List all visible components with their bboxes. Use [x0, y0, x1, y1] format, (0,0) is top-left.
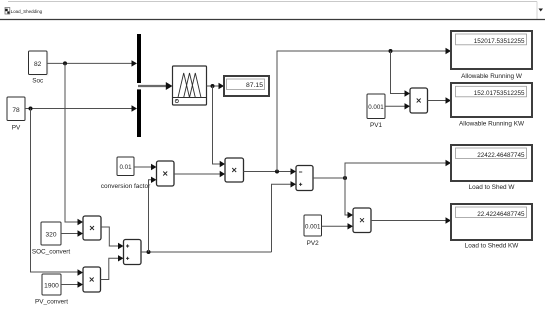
wire down to multiply G top input: [345, 178, 348, 215]
wire mux output (vector) to fuzzy: [138, 85, 166, 87]
svg-text:0.001: 0.001: [305, 223, 321, 230]
arrowhead into multiply A bottom: [151, 177, 157, 183]
svg-text:320: 320: [45, 232, 56, 239]
sum F block: [296, 166, 313, 191]
arrowhead into multiply D top: [78, 269, 84, 275]
svg-text:Load to Shed W: Load to Shed W: [469, 184, 516, 191]
wire sum E output to the right: [141, 251, 272, 253]
wire multiply 1 to display Allowable Running KW: [428, 100, 446, 102]
node junction load to shed: [343, 176, 347, 180]
arrowhead into multiply B bottom: [220, 171, 225, 177]
svg-text:152.01753512255: 152.01753512255: [474, 90, 525, 97]
svg-text:82: 82: [34, 61, 42, 68]
node junction on top wire: [389, 49, 393, 53]
svg-text:PV_convert: PV_convert: [35, 299, 68, 306]
wire total load up to multiply A bottom input: [149, 180, 152, 252]
wire PV branch down to multiply D top input: [31, 109, 78, 273]
wire fuzzy branch down to multiply B top input: [213, 86, 221, 164]
arrowhead into multiply 1 bottom: [405, 103, 411, 109]
svg-text:PV2: PV2: [307, 240, 320, 247]
svg-text:87.15: 87.15: [246, 82, 263, 89]
wire PV to mux: [25, 108, 132, 110]
display 87.15: [224, 76, 269, 96]
wire multiply G to display Load to Shedd KW: [371, 220, 446, 222]
arrowhead into multiply C bottom: [78, 230, 84, 236]
svg-text:Allowable Running KW: Allowable Running KW: [459, 121, 525, 128]
label PV: [12, 125, 21, 132]
wire 1900 to multiply D bottom input: [61, 284, 78, 286]
svg-text:Allowable Running W: Allowable Running W: [461, 73, 523, 80]
multiply 1: [410, 88, 428, 113]
svg-text:152017.53512255: 152017.53512255: [474, 38, 525, 45]
constant PV value 78: [7, 97, 25, 121]
tab dropdown caret: [539, 9, 544, 12]
label SOC_convert: [32, 249, 71, 256]
svg-text:22.42246487745: 22.42246487745: [477, 211, 525, 218]
constant PV2 0.001: [304, 215, 322, 236]
arrowhead into fuzzy: [166, 82, 173, 90]
svg-text:Load_Shedding: Load_Shedding: [11, 9, 43, 14]
node junction fuzzy output: [211, 84, 215, 88]
multiply C: [83, 216, 101, 240]
tab title Load_Shedding: [11, 9, 43, 14]
wire 320 to multiply C bottom input: [61, 233, 78, 235]
label Load to Shedd KW: [465, 243, 520, 250]
arrowhead into multiply C top: [78, 219, 84, 225]
arrowhead into multiply 1 top: [405, 90, 411, 96]
label Allowable Running KW: [459, 121, 525, 128]
wire Soc branch down to multiply C top input: [65, 63, 78, 222]
multiply B: [225, 158, 244, 182]
arrowhead into sum E bottom: [118, 255, 124, 261]
display Load to Shed W: [451, 145, 532, 181]
arrowhead into display Allowable Running KW: [446, 97, 452, 103]
label PV1: [370, 122, 383, 129]
arrowhead into display Load to Shedd KW: [446, 217, 452, 223]
wire fuzzy output to display 87.15: [207, 85, 219, 87]
wire PV1 to multiply 1 bottom input: [385, 105, 405, 107]
arrowhead into multiply D bottom: [78, 281, 84, 287]
svg-text:22422.46487745: 22422.46487745: [477, 152, 525, 159]
tab bar top edge: [8, 2, 537, 20]
constant PV_convert 1900: [42, 274, 61, 295]
arrowhead into display 87.15: [219, 83, 225, 89]
node junction on Soc wire: [63, 61, 67, 65]
svg-text:0.01: 0.01: [119, 164, 132, 171]
label Allowable Running W: [461, 73, 523, 80]
fuzzy logic controller U1: [173, 66, 207, 105]
svg-text:78: 78: [12, 107, 20, 114]
node junction total load: [147, 250, 151, 254]
display Load to Shedd KW: [451, 204, 532, 240]
arrowhead PV into mux: [132, 105, 138, 111]
tab icon: [5, 8, 10, 15]
wire multiply B output to sum F minus input: [244, 171, 291, 173]
svg-text:PV1: PV1: [370, 122, 383, 129]
arrowhead into multiply G bottom: [348, 223, 354, 229]
multiply D: [83, 267, 101, 292]
arrowhead into display Allowable Running W: [446, 48, 452, 54]
wire sum F output: [313, 177, 345, 179]
wire up to display Load to Shed W: [345, 163, 446, 178]
wire multiply C to sum E top input: [101, 227, 118, 246]
wire Soc to mux: [47, 62, 132, 64]
display Allowable Running W: [451, 31, 532, 69]
display Allowable Running KW: [451, 83, 532, 117]
arrowhead into sum F minus: [291, 168, 297, 174]
wire allowable W up to top row: [277, 51, 446, 172]
constant SOC_convert 320: [41, 222, 61, 245]
label PV_convert: [35, 299, 68, 306]
wire sum E output to sum F plus input: [272, 184, 291, 252]
mux bar: [137, 34, 142, 137]
arrowhead Soc into mux: [132, 60, 138, 66]
arrowhead into multiply A top: [151, 164, 157, 170]
svg-text:Soc: Soc: [32, 78, 44, 85]
svg-text:PV: PV: [12, 125, 21, 132]
multiply G: [353, 208, 371, 233]
constant PV1 0.001: [367, 94, 385, 119]
multiply A: [157, 161, 175, 186]
wire multiply A output to multiply B bottom input: [174, 173, 220, 175]
wire 0.01 to multiply A top input: [134, 166, 151, 168]
svg-text:Load to Shedd KW: Load to Shedd KW: [465, 243, 520, 250]
arrowhead into multiply G top: [348, 212, 354, 218]
tab bar bottom line: [0, 19, 545, 21]
arrowhead into multiply B top: [220, 161, 225, 167]
node junction on PV wire: [29, 107, 33, 111]
wire PV2 to multiply G bottom input: [322, 225, 348, 227]
wire branch down to multiply 1 top input: [391, 51, 405, 94]
svg-text:conversion factor: conversion factor: [101, 183, 151, 190]
svg-text:0.001: 0.001: [368, 104, 384, 111]
constant Soc value 82: [29, 51, 49, 76]
wire multiply D to sum E bottom input: [101, 258, 119, 279]
label Load to Shed W: [469, 184, 516, 191]
label conversion factor: [101, 183, 151, 190]
arrowhead into sum E top: [118, 243, 124, 249]
arrowhead into display Load to Shed W: [446, 160, 452, 166]
label PV2: [307, 240, 320, 247]
svg-text:1900: 1900: [44, 282, 59, 289]
sum E block: [124, 240, 142, 265]
svg-text:SOC_convert: SOC_convert: [32, 249, 71, 256]
arrowhead into sum F plus: [291, 181, 297, 187]
constant conversion factor 0.01: [117, 157, 134, 176]
label Soc: [32, 78, 44, 85]
node junction allowable W: [275, 170, 279, 174]
